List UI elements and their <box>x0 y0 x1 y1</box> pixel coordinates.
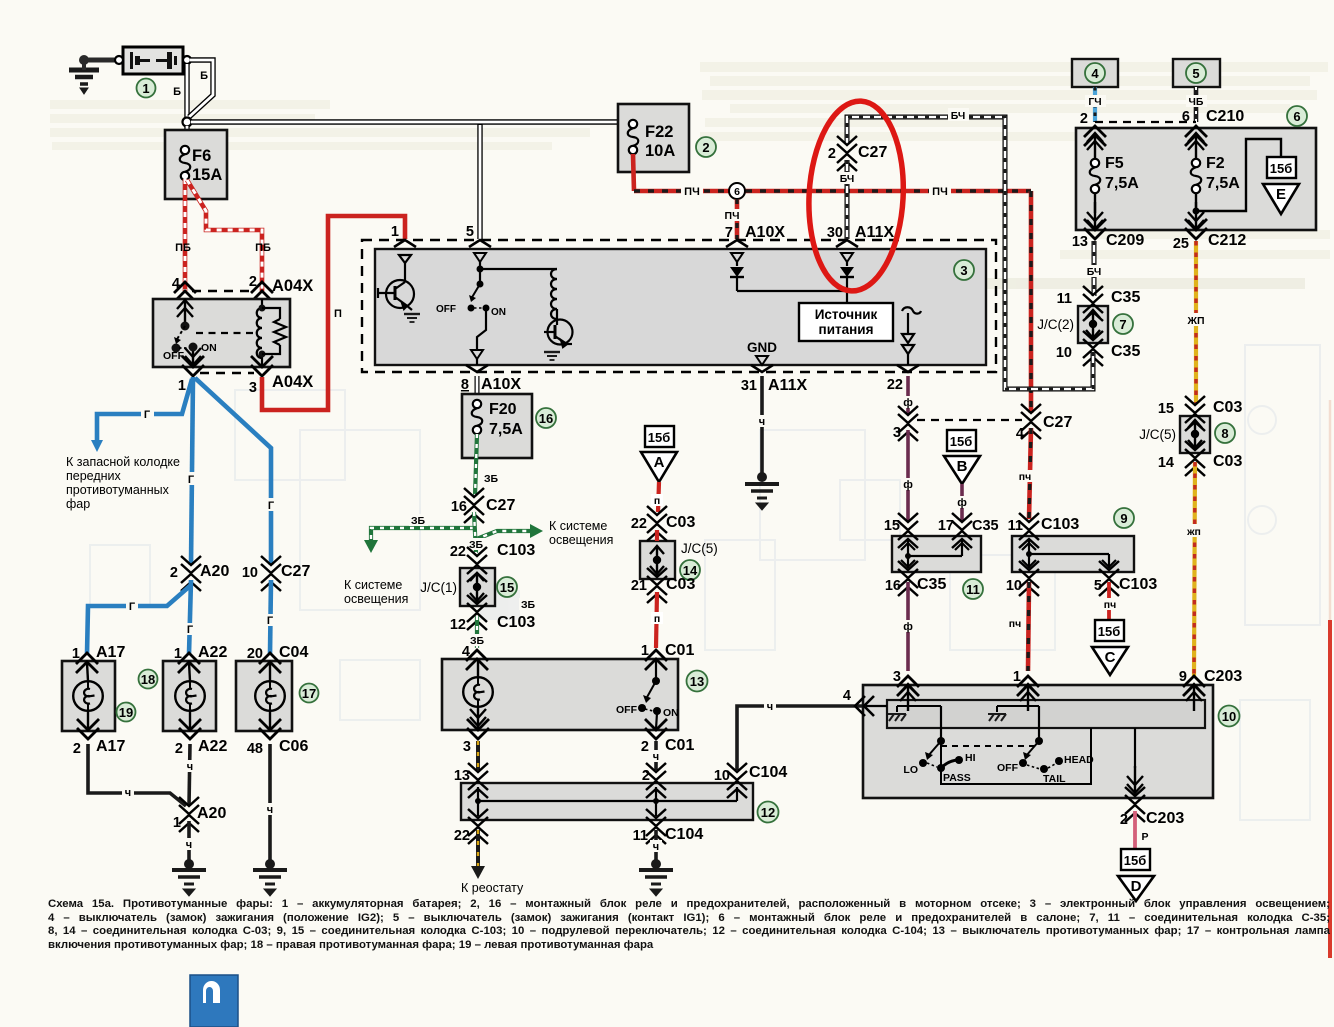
J/C(5) block 14 <box>640 541 675 579</box>
ECU unit 3 dashed box <box>362 240 996 372</box>
label ПЧ <box>681 184 703 198</box>
svg-text:C203: C203 <box>1146 810 1184 827</box>
svg-text:1: 1 <box>1013 669 1021 685</box>
label ПЧ <box>929 184 951 198</box>
svg-text:A22: A22 <box>198 738 227 755</box>
svg-text:9: 9 <box>1120 511 1127 526</box>
svg-text:C103: C103 <box>1119 576 1157 593</box>
svg-text:11: 11 <box>966 582 980 597</box>
ground (battery) <box>69 70 99 94</box>
svg-text:C: C <box>1105 649 1116 666</box>
label Ч <box>764 699 776 713</box>
wire БЧ long path to C27-2 <box>847 117 1093 389</box>
wire Б drop to pin5 of ECU <box>477 124 482 239</box>
label ЖП <box>1184 524 1205 538</box>
svg-text:ч: ч <box>186 839 192 851</box>
blue bookmark tag <box>190 975 238 1027</box>
label ф <box>956 496 969 509</box>
pin 6 C210 <box>1185 126 1207 146</box>
svg-text:HEAD: HEAD <box>1064 754 1094 766</box>
svg-text:7,5A: 7,5A <box>1206 175 1240 192</box>
triangle B <box>944 456 980 484</box>
svg-text:21: 21 <box>631 578 647 594</box>
svg-text:C03: C03 <box>666 576 695 593</box>
svg-text:4: 4 <box>172 276 180 292</box>
svg-text:БЧ: БЧ <box>840 173 855 185</box>
svg-text:C01: C01 <box>665 737 694 754</box>
label Г <box>184 623 196 636</box>
relay mech dashed link <box>196 332 258 334</box>
ignition switch box 5 <box>1173 59 1220 87</box>
triangle A <box>641 452 677 482</box>
svg-text:ЧБ: ЧБ <box>1189 96 1204 108</box>
svg-text:ф: ф <box>903 479 913 491</box>
svg-text:11: 11 <box>633 828 648 844</box>
svg-text:ч: ч <box>767 701 773 713</box>
svg-text:C27: C27 <box>858 144 887 161</box>
switch OFF/ON (ECU) <box>477 281 484 288</box>
svg-text:ГЧ: ГЧ <box>1088 96 1101 108</box>
svg-text:Г: Г <box>267 615 274 627</box>
svg-text:30: 30 <box>827 225 843 241</box>
15б marker D <box>1121 849 1150 870</box>
wire Г C27 to lamp17 <box>270 580 271 654</box>
svg-text:48: 48 <box>247 741 263 757</box>
svg-text:C27: C27 <box>1043 414 1072 431</box>
svg-text:C35: C35 <box>972 518 999 534</box>
svg-text:A20: A20 <box>200 563 229 580</box>
svg-text:Б: Б <box>173 86 181 98</box>
svg-text:15б: 15б <box>1098 624 1121 639</box>
svg-text:ON: ON <box>663 707 679 719</box>
connector 1 A20 <box>179 797 199 832</box>
15б marker B <box>947 430 976 451</box>
label ЗБ <box>482 472 501 485</box>
sub wiring <box>941 728 1091 784</box>
svg-text:C103: C103 <box>497 542 535 559</box>
pin 5 <box>469 240 491 247</box>
wire Б (white, battery right down) <box>184 64 189 118</box>
svg-text:К системе: К системе <box>549 519 607 533</box>
svg-text:A: A <box>654 454 665 471</box>
wire БЧ C209 to J/C(2) <box>1092 241 1097 296</box>
svg-text:6: 6 <box>734 186 740 198</box>
svg-text:пч: пч <box>1019 471 1031 483</box>
svg-text:2: 2 <box>641 739 649 755</box>
svg-text:2: 2 <box>642 768 650 784</box>
dashed link 3 to C27-4 <box>917 419 1022 421</box>
wire ПЧ C27-4 down to C103-11 <box>1029 428 1031 519</box>
label ф <box>902 478 915 491</box>
wire Ф pin22 to conn 3 <box>906 376 910 414</box>
transistor Q1 <box>378 255 414 310</box>
svg-text:5: 5 <box>1094 578 1102 594</box>
svg-text:7,5A: 7,5A <box>1105 175 1139 192</box>
wire ЗБ F20 to C27-16 <box>475 434 477 496</box>
switch A LO/HI/PASS <box>940 706 942 739</box>
wire ЗБ branch left (to lighting system) <box>371 528 474 540</box>
pin 3 <box>897 676 919 696</box>
svg-text:12: 12 <box>761 805 775 820</box>
svg-text:1: 1 <box>174 646 182 662</box>
svg-text:ON: ON <box>201 342 217 354</box>
svg-text:ч: ч <box>125 787 131 799</box>
svg-text:F2: F2 <box>1206 155 1225 172</box>
svg-text:11: 11 <box>1057 291 1072 307</box>
svg-text:22: 22 <box>450 544 466 560</box>
label ЗБ <box>467 538 486 551</box>
diode bus <box>737 291 847 303</box>
svg-text:A17: A17 <box>96 644 125 661</box>
svg-text:18: 18 <box>141 672 155 687</box>
svg-text:J/C(1): J/C(1) <box>420 580 457 595</box>
svg-text:5: 5 <box>1192 66 1199 81</box>
svg-text:17: 17 <box>302 686 316 701</box>
svg-text:2: 2 <box>828 146 836 162</box>
red ellipse highlight <box>804 99 908 294</box>
svg-text:16: 16 <box>451 499 467 515</box>
svg-text:15: 15 <box>884 518 900 534</box>
svg-text:C103: C103 <box>1041 516 1079 533</box>
mech dashed link <box>941 745 1039 747</box>
svg-text:ПБ: ПБ <box>255 242 271 254</box>
dashed link pin2-pin6 <box>1095 121 1196 123</box>
svg-text:C27: C27 <box>281 563 310 580</box>
svg-text:C06: C06 <box>279 738 308 755</box>
svg-text:3: 3 <box>463 739 471 755</box>
svg-text:1: 1 <box>641 643 649 659</box>
svg-text:14: 14 <box>1158 455 1174 471</box>
wire ЖП J/C(5) to C203-9 <box>1194 462 1195 676</box>
svg-text:7: 7 <box>1119 317 1126 332</box>
svg-text:15б: 15б <box>1124 853 1147 868</box>
wire П A to C03-22 <box>658 482 659 512</box>
svg-text:C104: C104 <box>665 826 703 843</box>
svg-text:15: 15 <box>500 580 514 595</box>
J/C(5) block 8 <box>1180 416 1210 453</box>
svg-text:БЧ: БЧ <box>1087 266 1102 278</box>
svg-text:19: 19 <box>119 705 133 720</box>
svg-text:ON: ON <box>491 307 506 318</box>
svg-text:A11X: A11X <box>768 377 807 394</box>
ground (C104-11) <box>651 859 661 869</box>
switch contact (13) <box>655 659 657 679</box>
svg-text:Г: Г <box>129 601 136 613</box>
pin 25 C212 <box>1185 219 1207 239</box>
text: к запасной колодке <box>66 455 180 511</box>
lamp 18 (right fog lamp) <box>163 661 216 731</box>
svg-text:1: 1 <box>72 646 80 662</box>
svg-text:ф: ф <box>903 397 913 409</box>
svg-text:13: 13 <box>690 674 704 689</box>
svg-text:фар: фар <box>66 497 90 511</box>
svg-text:15: 15 <box>1158 401 1174 417</box>
svg-text:3: 3 <box>893 425 901 441</box>
svg-text:10A: 10A <box>645 142 675 160</box>
label ЗБ <box>468 634 487 647</box>
svg-text:15б: 15б <box>1270 161 1293 176</box>
svg-text:К системе: К системе <box>344 578 402 592</box>
svg-text:31: 31 <box>741 378 757 394</box>
svg-text:C04: C04 <box>279 644 308 661</box>
fuse F2 7,5A <box>1188 133 1204 160</box>
svg-text:2: 2 <box>1120 812 1128 828</box>
wire Г left branch to spare block <box>97 379 192 441</box>
svg-text:A20: A20 <box>197 805 226 822</box>
relay resistor <box>262 308 286 354</box>
svg-text:ф: ф <box>903 621 913 633</box>
svg-text:13: 13 <box>454 768 470 784</box>
svg-text:F5: F5 <box>1105 155 1124 172</box>
wire ЖЧ pin3 to C104-13 <box>476 741 480 770</box>
svg-text:E: E <box>1276 186 1286 203</box>
svg-text:LO: LO <box>903 764 918 776</box>
pin 2 C01 <box>645 719 667 739</box>
pin 2 <box>1084 126 1106 146</box>
switch output to pin 8 <box>477 311 486 349</box>
relay K1 box <box>153 299 290 367</box>
svg-text:ПЧ: ПЧ <box>684 186 700 198</box>
label ПЧ <box>722 209 743 222</box>
wire ПЧ C103-10 to box10 pin1 <box>1028 582 1029 671</box>
svg-text:A04X: A04X <box>272 373 313 391</box>
connector block 12 (C104) <box>461 783 753 820</box>
pin 9 C203 <box>1183 676 1205 696</box>
svg-text:C209: C209 <box>1106 232 1144 249</box>
svg-text:10: 10 <box>1006 578 1022 594</box>
svg-text:C01: C01 <box>665 642 694 659</box>
svg-text:A10X: A10X <box>481 376 521 393</box>
svg-text:OFF: OFF <box>436 304 456 315</box>
connector 3 (dashed link level) <box>898 406 918 441</box>
label ч <box>264 803 276 816</box>
label 1 (circled) <box>137 79 156 98</box>
svg-text:J/C(2): J/C(2) <box>1037 317 1074 332</box>
label ч <box>122 786 134 799</box>
svg-text:J/C(5): J/C(5) <box>1139 427 1176 442</box>
svg-text:A22: A22 <box>198 644 227 661</box>
svg-text:Источник: Источник <box>815 307 878 322</box>
label БЧ <box>1084 265 1104 278</box>
label П <box>651 612 663 625</box>
wire П red: relay pin3 to ECU pin1 <box>262 216 405 410</box>
wire ч to ground <box>187 821 191 864</box>
label ЧБ <box>1186 95 1207 108</box>
svg-text:П: П <box>334 308 342 320</box>
ground (inside bar, left) <box>896 706 898 712</box>
wire Г branch to lamp19 <box>87 585 191 654</box>
wire ПЧ horizontal bus <box>634 189 1031 194</box>
svg-text:Г: Г <box>144 409 151 421</box>
svg-text:9: 9 <box>1179 669 1187 685</box>
wire ПЧ vertical to C27-4 <box>1029 191 1034 413</box>
svg-text:3: 3 <box>893 669 901 685</box>
svg-text:ЗБ: ЗБ <box>411 515 426 527</box>
svg-text:ч: ч <box>267 804 273 816</box>
15б box E <box>1267 157 1296 178</box>
svg-text:ч: ч <box>759 416 765 428</box>
wire ПБ (red/white) F6 to relay pin 2 <box>187 180 262 291</box>
wire П C03-21 to switch pin 1 <box>656 592 657 648</box>
fuse box F6 15A <box>165 130 227 199</box>
svg-text:2: 2 <box>175 741 183 757</box>
pin 31 A11X <box>751 365 773 372</box>
pin 2 C203 <box>1125 787 1145 822</box>
svg-text:C35: C35 <box>1111 343 1140 360</box>
wire Ф C35-16 to box10 pin3 <box>906 582 910 671</box>
fuse box F22 10A <box>618 104 689 172</box>
connector 4 C27 <box>1021 404 1041 439</box>
svg-text:6: 6 <box>1293 109 1300 124</box>
ECU inner box <box>375 249 986 365</box>
diode D1 under pin 7 <box>731 253 743 262</box>
15б marker C <box>1095 620 1124 641</box>
svg-text:1: 1 <box>142 81 149 96</box>
svg-text:БЧ: БЧ <box>951 110 966 122</box>
wire ГЧ box4 to pin2 <box>1093 87 1097 122</box>
connector block 9 (C103) <box>1012 536 1134 572</box>
svg-text:C27: C27 <box>486 497 515 514</box>
relay coil <box>257 299 262 366</box>
wire ч pin31 to ground <box>760 376 764 476</box>
pin 1 <box>182 356 204 376</box>
svg-text:A04X: A04X <box>272 277 313 295</box>
label ч <box>650 750 662 763</box>
svg-text:OFF: OFF <box>997 762 1019 774</box>
pin 30 A11X <box>836 240 858 247</box>
wire Г center vertical to A20 <box>191 377 193 565</box>
svg-text:ПБ: ПБ <box>175 242 191 254</box>
svg-text:20: 20 <box>247 646 263 662</box>
wire ПЧ drop to pin 7 <box>735 199 740 239</box>
svg-text:ф: ф <box>957 497 967 509</box>
pin 4 <box>174 282 196 302</box>
svg-text:Г: Г <box>188 474 195 486</box>
label Р <box>1139 830 1151 843</box>
label 2 (circled) <box>696 137 716 157</box>
label ЗБ <box>409 514 428 527</box>
wire Г A20 to lamp18 <box>189 580 191 654</box>
svg-text:OFF: OFF <box>163 350 185 362</box>
svg-text:К реостату: К реостату <box>461 881 524 895</box>
wire БЧ C27-2 to pin30 <box>845 160 850 239</box>
cabin relay block 6 <box>1076 128 1316 230</box>
svg-text:C35: C35 <box>1111 289 1140 306</box>
svg-text:13: 13 <box>1072 234 1088 250</box>
svg-text:C03: C03 <box>666 514 695 531</box>
svg-text:6: 6 <box>1182 109 1190 125</box>
ground (lamp 17) <box>265 859 275 869</box>
fuse F6 symbol <box>180 146 191 180</box>
svg-text:16: 16 <box>885 578 901 594</box>
connector 10 C27 <box>261 556 281 591</box>
label ч <box>184 760 196 773</box>
svg-text:D: D <box>1131 878 1142 895</box>
fuse box F20 7,5A (block 16) <box>462 394 532 458</box>
svg-text:F22: F22 <box>645 123 673 141</box>
label ПЧ <box>1015 470 1036 483</box>
triangle C <box>1092 647 1128 675</box>
wire Г right diagonal to C27 <box>195 378 271 565</box>
svg-text:4: 4 <box>1016 426 1024 442</box>
label БЧ <box>837 172 857 185</box>
sensor squiggle at pin 22 <box>902 307 921 365</box>
junction node <box>183 118 192 127</box>
svg-text:PASS: PASS <box>943 772 971 784</box>
wire ПБ (red/white) F6 to relay pin 4 <box>183 179 188 291</box>
relay switch arm <box>177 299 193 324</box>
label Г <box>264 614 276 627</box>
pin5 input triangle <box>474 253 486 262</box>
label ч <box>650 840 662 853</box>
svg-text:OFF: OFF <box>616 704 638 716</box>
pin 4 (left side) <box>855 696 874 716</box>
wire ПЧ C103-5 to C marker <box>1107 582 1111 620</box>
wire ч lamp17 to ground <box>268 744 272 864</box>
svg-text:F20: F20 <box>489 401 517 418</box>
caption <box>48 898 1330 952</box>
battery B1 <box>115 47 191 74</box>
svg-text:25: 25 <box>1173 236 1189 252</box>
label пч <box>1100 598 1120 611</box>
output to pin 2 <box>1127 766 1143 793</box>
svg-text:пч: пч <box>1009 618 1021 630</box>
power source box <box>799 303 893 341</box>
pin 1 <box>1017 676 1039 696</box>
pin 1 <box>394 240 416 247</box>
svg-text:4: 4 <box>462 644 470 660</box>
svg-text:ЗБ: ЗБ <box>484 473 499 485</box>
label П <box>651 494 663 507</box>
label ч <box>756 415 768 428</box>
svg-text:Р: Р <box>1141 831 1148 843</box>
svg-text:15б: 15б <box>950 434 973 449</box>
text к системе освещения (left) <box>344 578 408 606</box>
connector block 11 (C35) <box>892 536 981 572</box>
svg-text:ПЧ: ПЧ <box>932 186 948 198</box>
wire Б junction into F6 <box>184 126 189 148</box>
svg-text:F6: F6 <box>192 147 211 165</box>
wire ч pin2 to C104-2 <box>654 741 658 770</box>
svg-text:пч: пч <box>1104 599 1116 611</box>
svg-text:ЖП: ЖП <box>1186 315 1204 327</box>
triangle D <box>1118 876 1154 901</box>
svg-text:Б: Б <box>200 70 208 82</box>
lamp 17 (indicator lamp) <box>236 661 292 731</box>
svg-text:7: 7 <box>725 225 733 241</box>
red page edge line <box>1328 620 1332 958</box>
svg-text:22: 22 <box>887 377 903 393</box>
ground (inside bar, mid) <box>996 706 998 712</box>
J/C(1) block 15 <box>460 568 495 606</box>
svg-text:Г: Г <box>187 624 194 636</box>
svg-text:питания: питания <box>819 322 874 337</box>
svg-text:ч: ч <box>187 761 193 773</box>
svg-text:16: 16 <box>539 411 553 426</box>
svg-text:C103: C103 <box>497 614 535 631</box>
connector 16 C27 <box>464 488 484 523</box>
svg-text:1: 1 <box>173 815 181 831</box>
ground (lamps 18/19) <box>184 859 194 869</box>
svg-text:передних: передних <box>66 469 122 483</box>
label Г <box>141 407 154 421</box>
svg-text:К запасной колодке: К запасной колодке <box>66 455 180 469</box>
svg-text:освещения: освещения <box>549 533 613 547</box>
svg-text:12: 12 <box>450 617 466 633</box>
wire Р C203-2 to D marker <box>1133 811 1137 848</box>
label 6 (circled) <box>1287 106 1307 126</box>
svg-text:C203: C203 <box>1204 668 1242 685</box>
